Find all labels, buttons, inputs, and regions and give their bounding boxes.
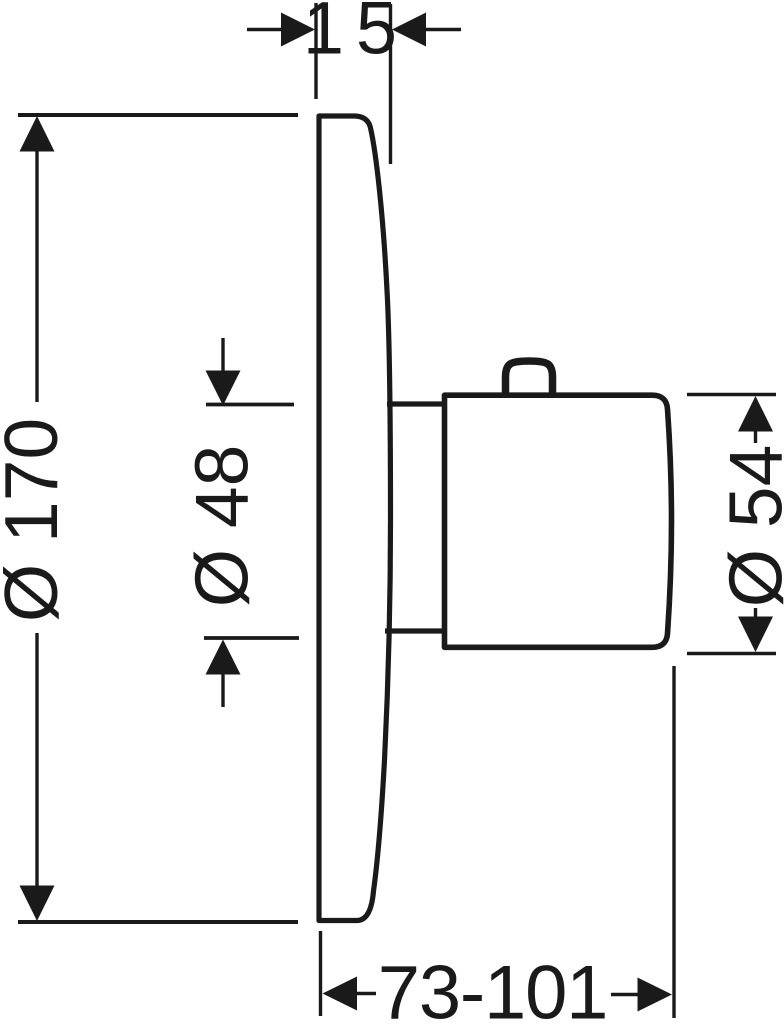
dim 48: top arrow (pointing down)	[206, 371, 241, 406]
dim 170: upper dimension line	[35, 150, 38, 402]
dim 170: bottom extension line	[18, 920, 298, 924]
dim 54: top arrow (pointing up)	[738, 396, 773, 432]
sleeve bottom line	[385, 628, 444, 633]
dim 170: bottom arrow	[20, 886, 55, 922]
dim 73-101: right tail line	[611, 993, 638, 996]
dim 73-101: right arrow	[638, 978, 673, 1012]
dim 15: left extension line	[314, 3, 317, 99]
dim 48: top tail line	[221, 338, 224, 372]
dim 73-101: left extension line	[319, 931, 322, 1016]
svg-text:Ø 48: Ø 48	[180, 445, 264, 608]
dim 54: top tail line	[754, 430, 757, 443]
dim 15: right arrow	[392, 13, 426, 47]
svg-text:1: 1	[303, 0, 344, 70]
dim 73-101: right extension line	[672, 666, 675, 1018]
sleeve top line	[387, 401, 444, 406]
dim 54: bottom tail line	[754, 608, 757, 619]
dim 15: left leader line	[247, 28, 282, 31]
dim 170: lower dimension line	[35, 633, 38, 887]
dim 48: bottom arrow (pointing up)	[206, 640, 241, 675]
dim 15: right leader line	[426, 28, 461, 31]
dim 73-101: left arrow	[323, 977, 358, 1011]
dim 170: top arrow	[20, 116, 55, 152]
svg-text:73-101: 73-101	[378, 951, 607, 1024]
dim 15: left arrow	[281, 13, 315, 47]
dim 48: bottom extension line	[204, 636, 299, 640]
dim 170: top extension line	[18, 113, 298, 117]
knob (handle)	[445, 395, 672, 647]
svg-text:Ø 170: Ø 170	[0, 418, 73, 622]
knob top tab	[506, 361, 553, 395]
dim 48: bottom tail line	[221, 674, 224, 707]
dim 54: bottom extension line	[687, 652, 776, 655]
dim 54: top extension line	[687, 393, 776, 396]
dim 15: right extension line	[389, 4, 392, 164]
svg-text:5: 5	[356, 0, 397, 70]
escutcheon plate (side profile)	[319, 116, 391, 921]
svg-text:Ø 54: Ø 54	[714, 445, 784, 608]
dim 48: top extension line	[206, 403, 294, 407]
dim 54: bottom arrow (pointing down)	[738, 617, 773, 653]
dim 73-101: left tail line	[356, 992, 376, 995]
